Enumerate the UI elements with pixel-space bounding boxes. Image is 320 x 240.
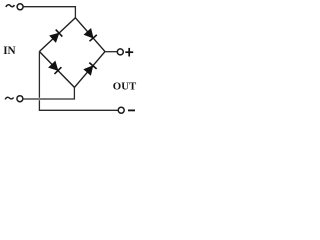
diode D1 (anode at left vertex, cathode toward top vertex) — [50, 30, 63, 43]
wire: bridge edge, bottom vertex to right vertex — [74, 52, 105, 88]
svg-text:IN: IN — [3, 45, 15, 57]
diode D3 (anode at left vertex, cathode toward bottom vertex) — [49, 61, 62, 74]
wire: bridge edge, left vertex to top vertex — [39, 18, 75, 52]
plus sign — [125, 48, 133, 57]
AC tilde symbol (top-left input) — [6, 5, 15, 7]
wire: bridge edge, top vertex to right vertex — [75, 18, 105, 52]
minus sign — [128, 109, 135, 111]
wire: right vertex to positive terminal — [105, 51, 117, 53]
wire: crossover break to bottom rail and negative terminal — [39, 100, 118, 110]
terminal T3 (DC output, positive) — [117, 49, 123, 55]
diode D4 (anode at bottom vertex, cathode toward right vertex) — [84, 63, 97, 76]
wire: T2 to bottom vertex of bridge (crosses negative rail without junction) — [23, 87, 74, 99]
terminal T4 (DC output, negative) — [118, 107, 124, 113]
AC tilde symbol (bottom-left input) — [5, 97, 13, 99]
terminal T1 (AC input, top-left) — [17, 4, 23, 10]
wire: left vertex down to crossover break — [38, 52, 40, 98]
wire: bridge edge, left vertex to bottom vertex — [39, 52, 74, 88]
terminal T2 (AC input, bottom-left) — [17, 96, 23, 102]
diode D2 (anode at top vertex, cathode toward right vertex) — [84, 29, 97, 42]
wire: T1 to top vertex of bridge — [23, 7, 75, 19]
background — [0, 0, 140, 121]
svg-text:OUT: OUT — [113, 81, 137, 93]
